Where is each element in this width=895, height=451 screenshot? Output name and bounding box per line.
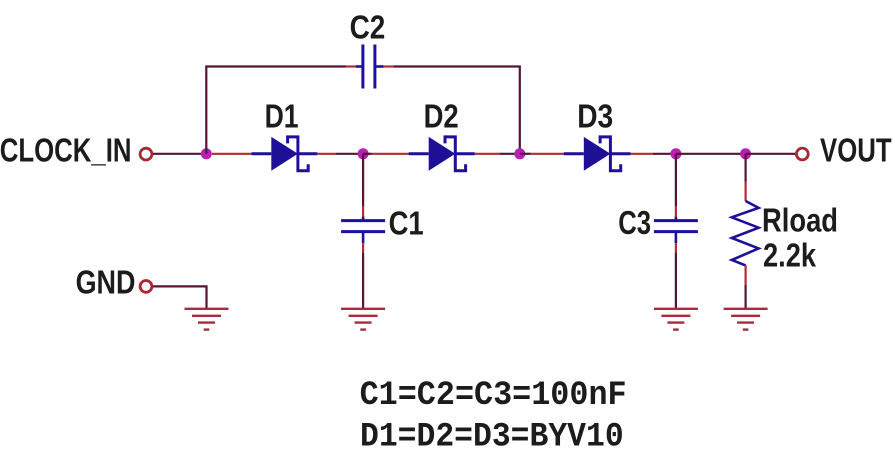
wire pin red below C3: [675, 243, 677, 252]
node D junction: [670, 148, 681, 159]
resistor Rload: [732, 201, 759, 265]
node A junction: [201, 148, 212, 159]
wire C1 to ground: [362, 253, 364, 309]
wire pin red below C1: [362, 243, 364, 252]
wire node C to D3: [520, 153, 531, 155]
wire pin red D2 to node C: [475, 153, 500, 155]
svg-text:C3: C3: [618, 204, 651, 241]
ground below C1: [341, 309, 385, 330]
ground below C3: [654, 309, 698, 330]
wire pin red right of C2: [384, 65, 394, 67]
node B junction: [358, 148, 369, 159]
ground at GND: [185, 309, 229, 330]
diode D1: [252, 137, 318, 171]
wire C3 to ground: [675, 253, 677, 309]
diode D2: [409, 137, 475, 171]
svg-text:VOUT: VOUT: [820, 131, 892, 168]
node E junction: [740, 148, 751, 159]
svg-text:D3: D3: [577, 97, 613, 134]
svg-text:GND: GND: [76, 264, 136, 301]
wire D1 to node B: [336, 153, 363, 155]
wire pin red D3 to node D: [631, 153, 653, 155]
svg-text:D1=D2=D3=BYV10: D1=D2=D3=BYV10: [360, 418, 624, 451]
terminal GND: [140, 281, 152, 293]
wire node B to D2: [363, 153, 371, 155]
wire D3 to node D: [653, 153, 676, 155]
wire GND terminal to ground: [153, 286, 207, 308]
wire pin red above C3: [675, 206, 677, 217]
wire pin red D1 to node B: [317, 153, 336, 155]
svg-text:C2: C2: [350, 9, 386, 46]
wire node E down to Rload: [744, 154, 746, 182]
terminal VOUT: [796, 148, 808, 160]
capacitor C1: [341, 217, 385, 243]
wire pin red left of D2: [372, 153, 410, 155]
ground below Rload: [724, 309, 768, 330]
svg-text:Rload: Rload: [762, 202, 838, 239]
wire top rail right of C2 down to node C: [394, 67, 520, 154]
svg-text:CLOCK_IN: CLOCK_IN: [0, 131, 132, 168]
svg-text:C1: C1: [389, 205, 424, 242]
node C junction: [514, 148, 525, 159]
wire node E to VOUT: [746, 153, 796, 155]
wire D2 to node C: [500, 153, 520, 155]
svg-text:C1=C2=C3=100nF: C1=C2=C3=100nF: [360, 377, 627, 415]
wire Rload to ground: [744, 285, 746, 309]
wire pin red node A to D1: [212, 153, 252, 155]
svg-text:D2: D2: [424, 97, 459, 134]
capacitor C2: [356, 45, 384, 89]
wire node D to node E: [676, 153, 746, 155]
svg-text:2.2k: 2.2k: [763, 237, 817, 274]
wire pin red below Rload: [744, 265, 746, 284]
wire pin red left of D3: [531, 153, 565, 155]
wire pin red above C1: [362, 206, 364, 217]
svg-text:D1: D1: [265, 97, 299, 134]
wire node A up and top rail left of C2: [206, 67, 346, 154]
capacitor C3: [654, 217, 698, 243]
wire pin red left of C2: [346, 65, 356, 67]
diode D3: [564, 137, 631, 171]
wire CLOCK_IN to node A: [153, 153, 206, 155]
wire node B down to C1: [362, 154, 364, 206]
wire pin red above Rload: [744, 182, 746, 202]
wire node D down to C3: [675, 154, 677, 206]
terminal CLOCK_IN: [140, 148, 152, 160]
